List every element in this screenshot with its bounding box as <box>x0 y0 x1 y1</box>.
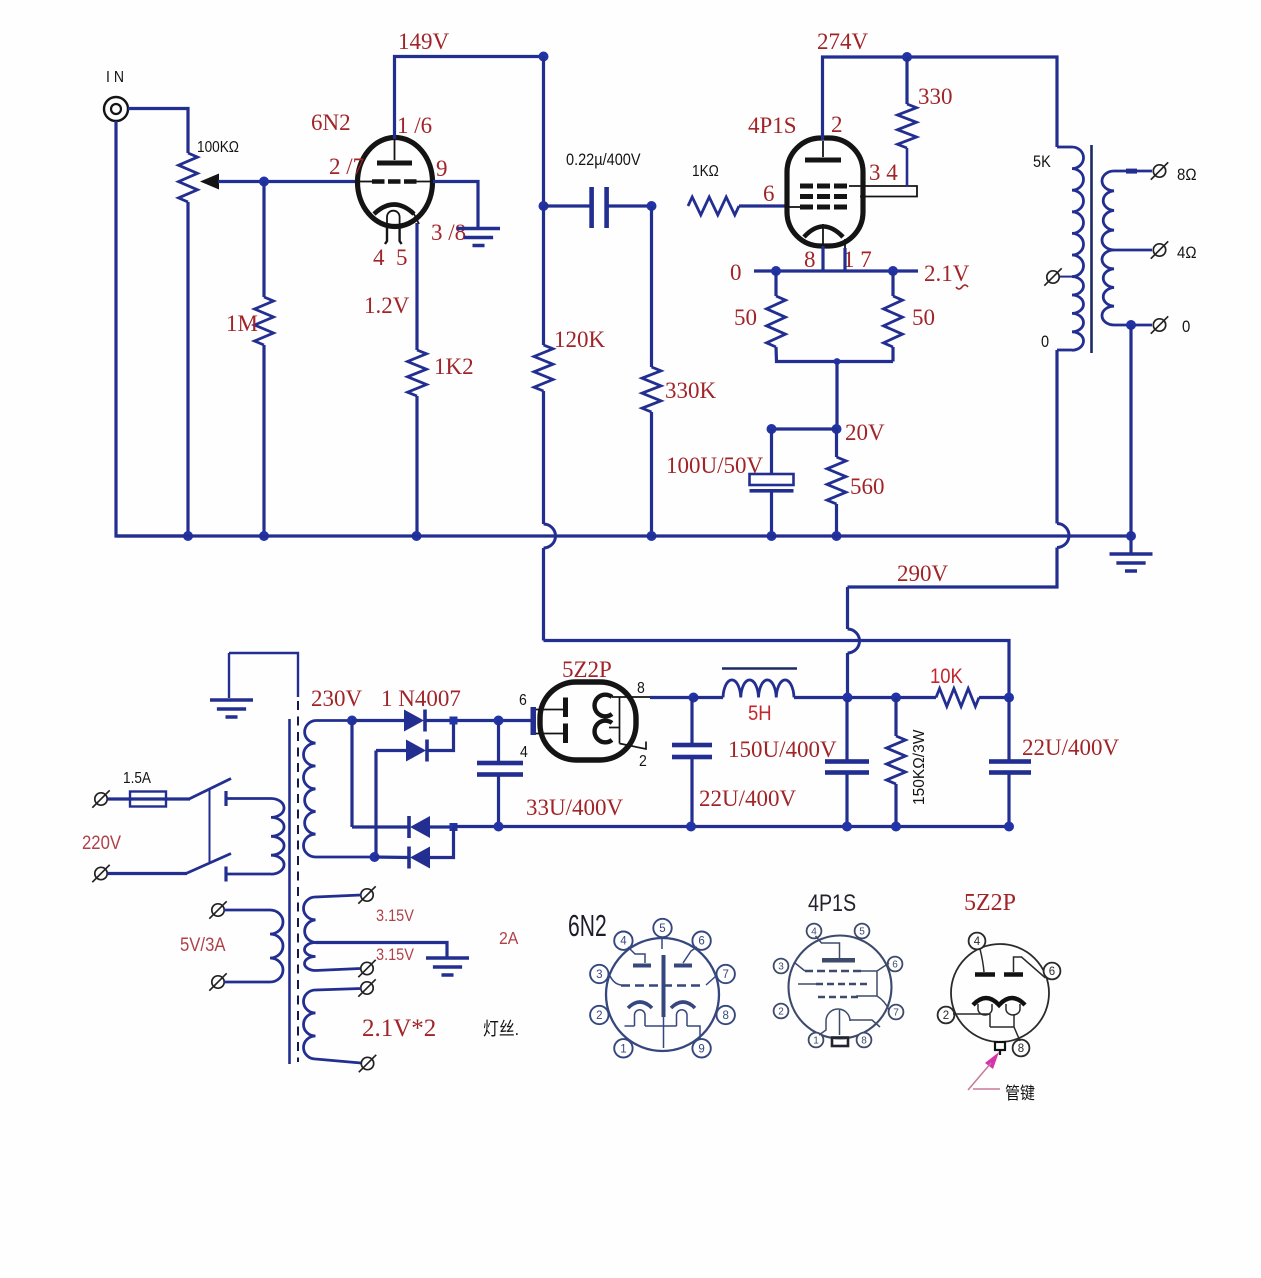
4 ohm tap <box>1114 249 1152 252</box>
fuse 1.5A <box>108 797 191 800</box>
svg-text:10K: 10K <box>930 665 963 688</box>
svg-text:8: 8 <box>861 1036 867 1047</box>
120K lead down with hop over bus <box>542 391 545 524</box>
capacitor 22U/400V (first) <box>690 698 693 746</box>
D1 output to 5Z2P pin6 <box>426 719 533 722</box>
290V drop with hop over B+ rail <box>846 587 849 629</box>
plate wire / 274V rail <box>823 57 1058 147</box>
svg-text:9: 9 <box>698 1043 704 1055</box>
svg-text:4: 4 <box>373 245 385 270</box>
svg-text:1: 1 <box>620 1043 626 1055</box>
pot wiper arrow <box>200 174 219 190</box>
node 330 top <box>902 52 912 62</box>
svg-text:330K: 330K <box>665 378 717 403</box>
node choke out <box>843 693 853 703</box>
svg-text:8: 8 <box>722 1010 728 1022</box>
svg-text:2: 2 <box>778 1007 784 1018</box>
svg-text:560: 560 <box>850 474 885 499</box>
screen/suppressor leads to 330 <box>849 180 917 197</box>
svg-text:1 N4007: 1 N4007 <box>381 686 461 711</box>
8 ohm tap <box>1114 170 1152 173</box>
svg-text:I N: I N <box>106 68 124 86</box>
pot lower lead <box>186 202 189 536</box>
svg-text:4P1S: 4P1S <box>748 113 797 138</box>
node pot bottom <box>183 531 193 541</box>
svg-text:9: 9 <box>436 156 448 181</box>
3.15V winding 1 <box>361 889 373 901</box>
6N2 heater <box>387 211 400 227</box>
capacitor 150U/400V <box>845 698 848 762</box>
svg-text:120K: 120K <box>554 327 606 352</box>
svg-text:5K: 5K <box>1033 153 1051 171</box>
svg-text:8: 8 <box>1018 1043 1024 1055</box>
secondary winding <box>1102 171 1114 250</box>
node 20V <box>832 424 842 434</box>
svg-text:3 4: 3 4 <box>869 160 898 185</box>
svg-text:2.1V: 2.1V <box>924 261 970 286</box>
3.15V winding 2 <box>305 943 316 971</box>
svg-text:1.2V: 1.2V <box>364 293 410 318</box>
node coupling junction <box>539 201 549 211</box>
svg-text:4: 4 <box>974 936 981 948</box>
svg-text:5H: 5H <box>748 702 772 725</box>
resistor 10K <box>936 689 979 707</box>
node 1M bottom <box>259 531 269 541</box>
chassis ground + shield <box>229 653 298 697</box>
2.1V*2 winding <box>361 982 373 994</box>
svg-text:5Z2P: 5Z2P <box>562 657 612 682</box>
B+ rail to 120K <box>544 641 1010 698</box>
svg-text:0: 0 <box>1182 318 1190 336</box>
svg-text:4P1S: 4P1S <box>808 889 856 916</box>
svg-text:2 /7: 2 /7 <box>329 154 364 179</box>
svg-text:5: 5 <box>659 923 665 935</box>
svg-text:2: 2 <box>596 1010 602 1022</box>
svg-text:150U/400V: 150U/400V <box>728 737 837 762</box>
triode U1 6N2 envelope <box>358 138 433 227</box>
svg-text:1.5A: 1.5A <box>123 770 151 787</box>
wire jack to pot top <box>128 109 188 154</box>
svg-text:1K2: 1K2 <box>434 354 474 379</box>
svg-text:5: 5 <box>396 245 408 270</box>
svg-text:3: 3 <box>778 962 784 973</box>
mains terminals 220V <box>95 793 107 805</box>
diode D3 <box>350 721 353 828</box>
resistor 330K <box>650 206 653 367</box>
svg-text:0.22µ/400V: 0.22µ/400V <box>566 151 641 169</box>
svg-text:0: 0 <box>730 260 742 285</box>
transformer T1 primary 220V winding <box>226 797 271 800</box>
pentode U2 4P1S envelope <box>787 138 863 246</box>
wiper wire to 6N2 grid <box>218 180 358 183</box>
5V/3A winding <box>212 904 224 916</box>
main ground bus <box>116 534 1131 537</box>
svg-text:1M: 1M <box>226 311 258 336</box>
svg-text:7: 7 <box>722 969 728 981</box>
svg-text:20V: 20V <box>845 420 885 445</box>
potentiometer 100K <box>179 153 198 202</box>
svg-text:100KΩ: 100KΩ <box>197 139 239 156</box>
node 330K bottom <box>647 531 657 541</box>
svg-text:4: 4 <box>620 936 627 948</box>
0 tap <box>1114 324 1152 327</box>
svg-text:6: 6 <box>892 960 898 971</box>
grid return wire pin9 to ground <box>433 182 478 228</box>
diode D1 <box>347 716 357 726</box>
tube key arrow (magenta) <box>985 1052 999 1069</box>
svg-text:50: 50 <box>734 305 757 330</box>
5Z2P filament pins 6/4 <box>531 707 537 735</box>
svg-text:50: 50 <box>912 305 935 330</box>
capacitor 33U/400V <box>494 716 504 726</box>
node 150K top <box>891 693 901 703</box>
svg-text:150KΩ/3W: 150KΩ/3W <box>911 729 928 805</box>
svg-text:1KΩ: 1KΩ <box>692 163 719 180</box>
resistor 560 <box>835 429 838 457</box>
cathode resistor 1K2 <box>415 223 418 350</box>
D2 anode feed from AC2 <box>374 751 377 858</box>
svg-text:6: 6 <box>1049 966 1055 978</box>
svg-text:6: 6 <box>763 181 775 206</box>
svg-text:3.15V: 3.15V <box>376 907 415 925</box>
svg-text:100U/50V: 100U/50V <box>666 453 764 478</box>
svg-text:3.15V: 3.15V <box>376 946 415 964</box>
wire rail down to coupling node <box>542 57 545 207</box>
svg-text:230V: 230V <box>311 686 363 711</box>
svg-text:22U/400V: 22U/400V <box>699 786 797 811</box>
svg-text:3 /8: 3 /8 <box>431 220 466 245</box>
T1 core <box>288 719 291 1064</box>
node cathode resistors common <box>834 358 841 365</box>
svg-text:33U/400V: 33U/400V <box>526 795 624 820</box>
switch (DPST) <box>108 872 188 875</box>
svg-text:5V/3A: 5V/3A <box>180 934 226 955</box>
input jack IN <box>104 97 128 121</box>
resistor 50 (left) <box>774 271 777 296</box>
svg-text:8: 8 <box>804 247 816 272</box>
node 0 tap to ground <box>1126 320 1136 330</box>
4P1S cathode <box>804 227 843 238</box>
node 149V rail corner <box>539 52 549 62</box>
svg-text:2A: 2A <box>499 928 519 948</box>
svg-text:2: 2 <box>639 752 647 770</box>
capacitor 22U/400V (second) <box>1004 693 1014 703</box>
svg-text:1: 1 <box>813 1036 819 1047</box>
output transformer T2 primary 5K <box>1072 147 1084 277</box>
6N2 grid dashes <box>372 179 417 184</box>
primary centre tap terminal <box>1060 276 1072 278</box>
svg-text:6: 6 <box>698 936 704 948</box>
svg-text:6N2: 6N2 <box>311 110 351 135</box>
svg-text:2: 2 <box>831 112 843 137</box>
transformer core <box>1090 145 1093 353</box>
5Z2P output pin 8 <box>650 696 694 699</box>
svg-text:2: 2 <box>943 1010 949 1022</box>
heater centre tap to ground <box>316 943 448 958</box>
4P1S grids (3 rows of dashes) <box>800 184 847 189</box>
svg-text:0: 0 <box>1041 333 1049 351</box>
svg-text:1 /6: 1 /6 <box>397 113 432 138</box>
6N2 plate <box>377 161 412 166</box>
diode D2 <box>376 749 406 752</box>
svg-text:7: 7 <box>893 1008 899 1019</box>
node 1K2 bottom <box>412 531 422 541</box>
diode D4 <box>375 855 411 859</box>
node cap/330K junction <box>647 201 657 211</box>
primary bottom to 290V with hop over bus <box>1055 350 1058 524</box>
svg-text:22U/400V: 22U/400V <box>1022 735 1120 760</box>
DC negative rail <box>454 825 1010 828</box>
svg-text:4Ω: 4Ω <box>1177 244 1197 262</box>
node wiper/1M junction <box>259 177 269 187</box>
svg-text:1 7: 1 7 <box>843 247 872 272</box>
svg-text:149V: 149V <box>398 29 450 54</box>
capacitor 0.22u/400V <box>544 204 592 207</box>
svg-text:5Z2P: 5Z2P <box>964 890 1016 916</box>
resistor 150K/3W bleeder <box>894 698 897 737</box>
svg-text:管键: 管键 <box>1005 1084 1035 1103</box>
5Z2P anodes <box>595 695 612 743</box>
svg-text:灯丝.: 灯丝. <box>483 1019 519 1039</box>
svg-text:6N2: 6N2 <box>568 908 607 943</box>
cathode rail 0 / 2.1V <box>754 269 918 272</box>
svg-text:220V: 220V <box>82 832 121 853</box>
4P1S plate <box>805 158 841 163</box>
6N2 cathode <box>374 205 414 215</box>
svg-text:2.1V*2: 2.1V*2 <box>362 1015 436 1042</box>
svg-text:5: 5 <box>859 927 865 938</box>
ground pin 9 <box>457 229 500 246</box>
plate wire to 149V rail <box>395 57 544 140</box>
svg-text:6: 6 <box>519 691 527 709</box>
nodes on cathode rail <box>771 266 781 276</box>
svg-text:290V: 290V <box>897 561 949 586</box>
svg-text:330: 330 <box>918 84 953 109</box>
resistor 120K <box>542 206 545 345</box>
capacitor 100U/50V bypass <box>770 429 773 474</box>
ground symbol main <box>1126 531 1136 541</box>
svg-text:3: 3 <box>596 969 602 981</box>
resistor 50 (right) <box>891 271 894 296</box>
resistor 1KΩ grid stopper <box>688 197 739 215</box>
svg-text:8Ω: 8Ω <box>1177 166 1197 184</box>
230V HV winding <box>304 721 316 858</box>
resistor 330 screen <box>905 57 908 104</box>
svg-text:274V: 274V <box>817 29 869 54</box>
svg-text:4: 4 <box>520 743 528 761</box>
choke 5H <box>694 696 724 699</box>
svg-text:8: 8 <box>637 679 645 697</box>
wire jack down to ground bus <box>116 121 188 536</box>
resistor 1M <box>262 182 265 298</box>
